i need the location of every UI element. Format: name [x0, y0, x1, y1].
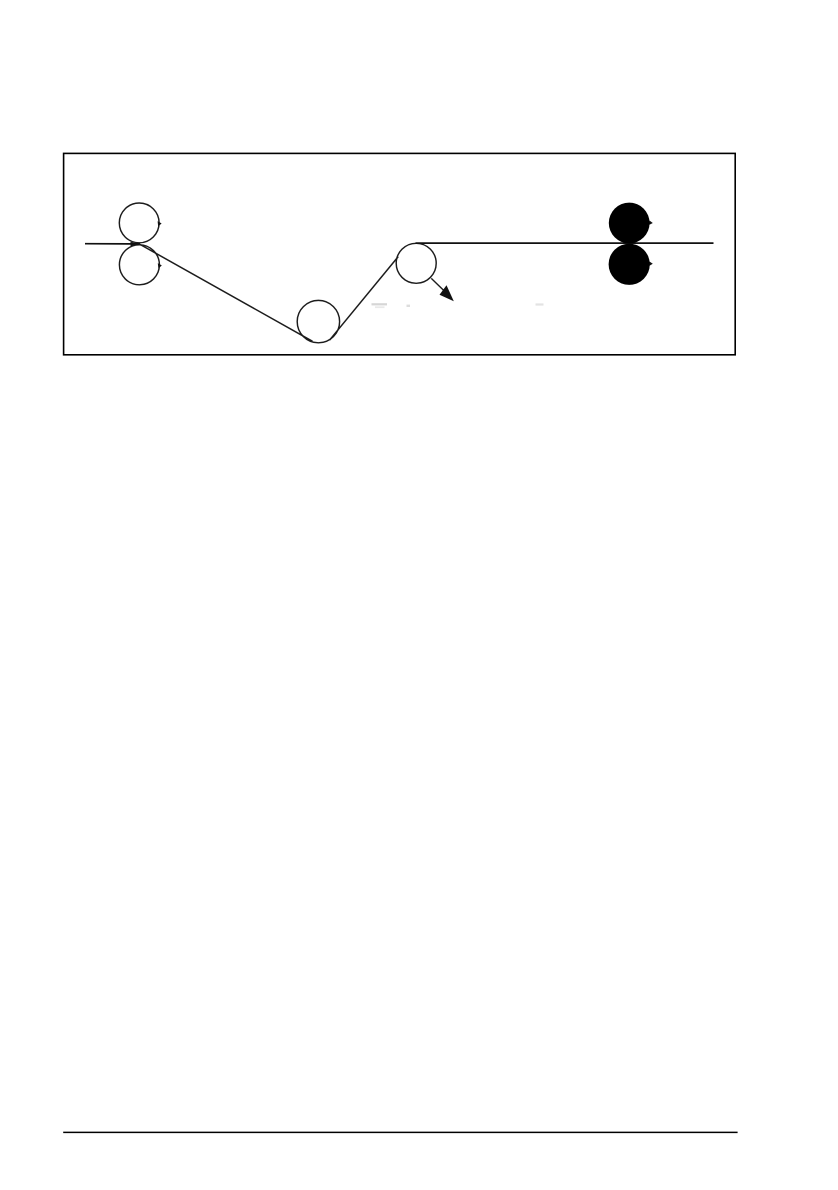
rotation tick on pinch roller bottom: [650, 262, 653, 266]
nip arrowhead: [131, 242, 138, 247]
rotation tick on feed roller top: [158, 221, 162, 226]
tension direction arrowhead: [440, 285, 454, 301]
idler roller (outline, bottom wrap): [297, 300, 339, 342]
feed roller top (outline): [119, 203, 159, 243]
rotation tick on feed roller bottom: [158, 263, 162, 268]
tension direction arrow shaft: [431, 278, 446, 292]
pinch roller bottom (filled): [609, 244, 650, 285]
paper web exiting right: [416, 242, 714, 244]
figure border box: [64, 153, 736, 354]
paper web entering left: [85, 243, 140, 245]
faint erased-text remnant right: [536, 303, 544, 305]
web segment ascending to guide roller: [330, 257, 399, 341]
faint erased-text remnant left: [372, 304, 411, 307]
footer rule: [63, 1131, 737, 1133]
guide roller (outline): [396, 243, 436, 283]
feed roller bottom (outline): [119, 245, 159, 285]
web segment descending to idler roller: [140, 244, 313, 341]
pinch roller top (filled): [609, 203, 650, 244]
rotation tick on pinch roller top: [650, 221, 653, 225]
